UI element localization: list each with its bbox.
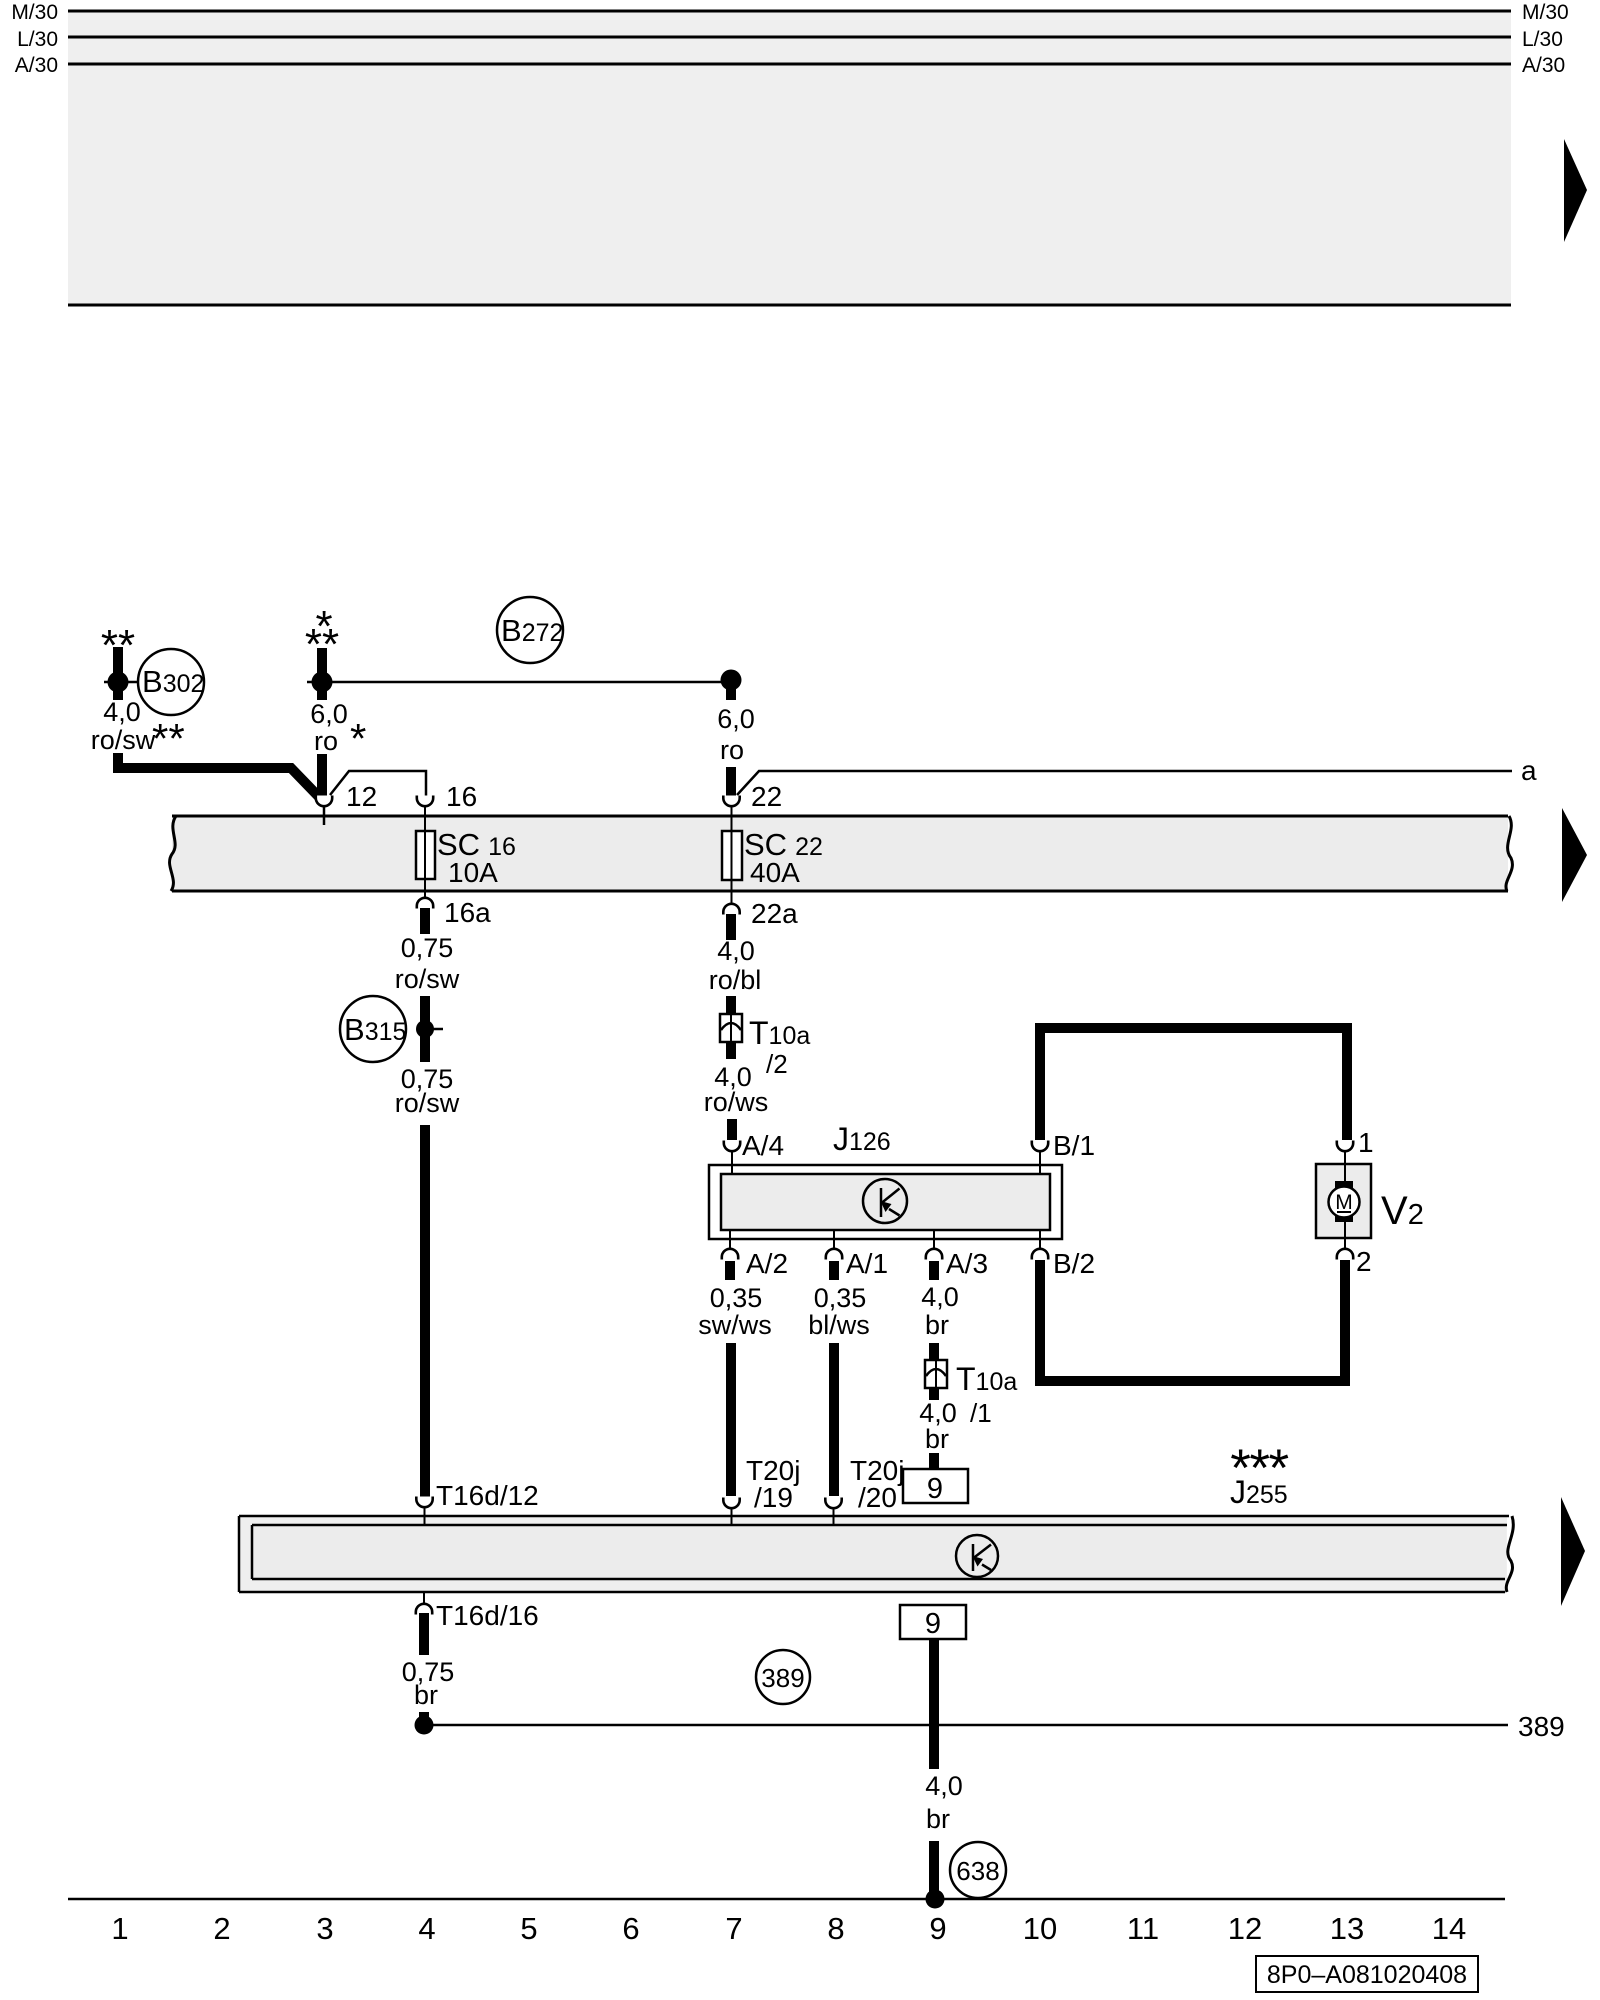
wire into terminal 12 xyxy=(317,754,327,797)
svg-text:L/30: L/30 xyxy=(17,28,58,51)
svg-text:22: 22 xyxy=(751,781,782,812)
svg-text:8P0–A081020408: 8P0–A081020408 xyxy=(1267,1961,1467,1989)
wire A/3 into connector T10a/1 xyxy=(929,1343,939,1362)
wire bridge terminal 12 to 16 xyxy=(330,771,426,797)
svg-text:M/30: M/30 xyxy=(1522,1,1569,24)
svg-text:2: 2 xyxy=(213,1911,230,1946)
terminal T16d/12 cup xyxy=(416,1497,432,1508)
svg-text:2: 2 xyxy=(1356,1246,1372,1277)
node ground dot xyxy=(926,1890,945,1909)
terminal B/2 cup xyxy=(1039,1230,1041,1250)
wire M/30 rail xyxy=(68,10,1511,13)
terminal 22a cup xyxy=(723,904,739,915)
svg-text:*: * xyxy=(350,715,366,762)
svg-text:ro/sw: ro/sw xyxy=(91,725,156,755)
svg-text:B/1: B/1 xyxy=(1053,1130,1095,1161)
svg-text:B302: B302 xyxy=(142,664,204,699)
wire stub below 16a xyxy=(420,908,430,934)
panel bottom edge xyxy=(68,304,1511,307)
continuation arrow top right xyxy=(1564,139,1587,242)
svg-text:ro: ro xyxy=(720,735,744,765)
node junction dot B315 xyxy=(416,1020,434,1038)
ground junction box 9 lower xyxy=(900,1605,966,1640)
svg-text:12: 12 xyxy=(1228,1911,1262,1946)
wire L/30 rail xyxy=(68,36,1511,39)
wire below connector xyxy=(726,1042,736,1059)
svg-text:A/30: A/30 xyxy=(1522,54,1565,77)
connection point 638 xyxy=(950,1842,1006,1898)
wire ground box to earth top xyxy=(929,1639,939,1769)
svg-text:9: 9 xyxy=(929,1911,946,1946)
wire loop V2 pin 2 to B/2 xyxy=(1040,1260,1345,1381)
svg-text:br: br xyxy=(414,1680,438,1710)
terminal B/1 cup xyxy=(1032,1141,1048,1152)
fuse SC16 body xyxy=(416,831,435,879)
svg-text:16a: 16a xyxy=(444,897,491,928)
wire A/2 stub xyxy=(725,1261,735,1280)
svg-text:/19: /19 xyxy=(754,1482,793,1513)
wire 389 line xyxy=(424,1724,1508,1727)
wire long run to T16d/12 xyxy=(420,1125,430,1497)
svg-text:ro/bl: ro/bl xyxy=(709,965,762,995)
svg-text:B272: B272 xyxy=(501,613,563,648)
drawing number box xyxy=(1256,1956,1478,1992)
connection point B315 xyxy=(340,996,406,1062)
wire tick at B315 junction xyxy=(425,1028,443,1031)
svg-text:A/1: A/1 xyxy=(846,1248,888,1279)
svg-text:389: 389 xyxy=(1518,1711,1565,1742)
wire stub below 22a xyxy=(726,914,736,940)
node junction dot 389 xyxy=(415,1716,434,1735)
terminal T16d/16 cup xyxy=(423,1592,425,1605)
connection point B302 xyxy=(138,649,204,715)
wire into terminal 22 xyxy=(726,767,736,797)
svg-text:B315: B315 xyxy=(344,1012,406,1047)
svg-text:/20: /20 xyxy=(858,1482,897,1513)
svg-text:0,75: 0,75 xyxy=(401,933,454,963)
wire A/3 stub xyxy=(929,1261,939,1280)
wire into 389 node xyxy=(419,1712,429,1725)
control module J126 box xyxy=(709,1165,1062,1239)
terminal 16a cup xyxy=(417,898,433,909)
terminal A/1 cup xyxy=(833,1230,835,1250)
svg-text:B/2: B/2 xyxy=(1053,1248,1095,1279)
svg-text:br: br xyxy=(925,1424,949,1454)
bus rail panel top xyxy=(68,11,1511,305)
svg-text:6,0: 6,0 xyxy=(717,704,755,734)
fuse panel band SC xyxy=(170,816,1513,891)
svg-text:a: a xyxy=(1521,755,1537,786)
terminal A/2 cup xyxy=(729,1230,731,1250)
continuation arrow J255 right xyxy=(1561,1497,1585,1606)
control module J255 band xyxy=(239,1516,1513,1592)
svg-text:8: 8 xyxy=(827,1911,844,1946)
svg-text:4,0: 4,0 xyxy=(925,1771,963,1801)
svg-text:9: 9 xyxy=(925,1608,941,1640)
svg-text:A/3: A/3 xyxy=(946,1248,988,1279)
svg-text:br: br xyxy=(925,1310,949,1340)
svg-text:br: br xyxy=(926,1804,950,1834)
svg-text:40A: 40A xyxy=(750,857,800,888)
fuse SC22 line through xyxy=(731,805,733,904)
svg-text:9: 9 xyxy=(927,1473,943,1505)
control module symbol K in J255 xyxy=(956,1535,998,1577)
wire loop B/1 to V2 pin 1 xyxy=(1040,1028,1347,1140)
continuation arrow fuse band right xyxy=(1562,808,1587,902)
fuse SC16 line through xyxy=(424,805,426,898)
wire into terminal A/4 xyxy=(727,1119,737,1140)
svg-text:ro/ws: ro/ws xyxy=(704,1087,769,1117)
svg-text:A/2: A/2 xyxy=(746,1248,788,1279)
terminal A/4 cup xyxy=(724,1141,740,1152)
svg-text:5: 5 xyxy=(520,1911,537,1946)
wire a branch line xyxy=(737,771,1512,795)
svg-text:sw/ws: sw/ws xyxy=(698,1310,772,1340)
svg-text:1: 1 xyxy=(111,1911,128,1946)
wire stub fused feed xyxy=(317,648,327,700)
wire segment through B315 xyxy=(420,996,430,1062)
terminal 16 cup xyxy=(417,796,433,807)
svg-text:ro: ro xyxy=(314,726,338,756)
svg-text:**: ** xyxy=(152,715,185,762)
wire into connector T10a/2 xyxy=(726,996,736,1016)
wire A/1 to T20j/20 xyxy=(829,1343,839,1496)
svg-text:14: 14 xyxy=(1432,1911,1466,1946)
svg-text:11: 11 xyxy=(1127,1911,1159,1946)
svg-text:T16d/16: T16d/16 xyxy=(436,1600,539,1631)
svg-text:A/4: A/4 xyxy=(742,1130,784,1161)
svg-text:638: 638 xyxy=(956,1856,999,1886)
svg-text:6,0: 6,0 xyxy=(310,699,348,729)
svg-text:22a: 22a xyxy=(751,898,798,929)
connection point B272 xyxy=(497,597,563,663)
terminal V2 pin 2 cup xyxy=(1337,1249,1353,1260)
svg-text:M/30: M/30 xyxy=(11,1,58,24)
connector T10a pin 2 xyxy=(720,1014,742,1042)
control module symbol K in J126 xyxy=(863,1179,907,1223)
svg-text:/1: /1 xyxy=(970,1398,992,1428)
svg-text:13: 13 xyxy=(1330,1911,1364,1946)
svg-text:bl/ws: bl/ws xyxy=(808,1310,870,1340)
svg-text:4,0: 4,0 xyxy=(921,1282,959,1312)
svg-text:6: 6 xyxy=(622,1911,639,1946)
svg-text:10: 10 xyxy=(1023,1911,1057,1946)
terminal 12 cup xyxy=(316,796,332,807)
svg-text:4: 4 xyxy=(418,1911,435,1946)
wire ground rail xyxy=(68,1898,1505,1901)
node junction dot fused feed xyxy=(312,672,333,693)
terminal A/3 cup xyxy=(933,1230,935,1250)
ground junction box 9 upper xyxy=(903,1469,968,1505)
wire stub below T16d/16 xyxy=(419,1613,429,1655)
wire into ground box 9 xyxy=(929,1453,939,1469)
svg-text:0,35: 0,35 xyxy=(814,1283,867,1313)
svg-text:16: 16 xyxy=(446,781,477,812)
terminal T20j/19 cup xyxy=(723,1498,739,1509)
svg-text:1: 1 xyxy=(1358,1127,1374,1158)
svg-text:7: 7 xyxy=(725,1911,742,1946)
terminal 12 line into band xyxy=(323,805,326,825)
terminal T20j/20 cup xyxy=(825,1498,841,1509)
svg-text:10A: 10A xyxy=(448,857,498,888)
wire below connector T10a/1 xyxy=(929,1388,939,1400)
terminal 22 cup xyxy=(723,796,739,807)
svg-text:4,0: 4,0 xyxy=(103,697,141,727)
svg-text:389: 389 xyxy=(761,1663,804,1693)
svg-text:A/30: A/30 xyxy=(15,54,58,77)
wire stub B302 xyxy=(113,647,123,700)
motor V2 box xyxy=(1316,1151,1371,1250)
wire ground to earth bottom xyxy=(929,1841,939,1899)
terminal V2 pin 1 cup xyxy=(1337,1141,1353,1152)
svg-text:/2: /2 xyxy=(766,1049,788,1079)
node junction dot 6,0 ro xyxy=(721,670,742,691)
svg-text:ro/sw: ro/sw xyxy=(395,1088,460,1118)
wire thick L from B302 to terminal 12 xyxy=(118,753,320,798)
svg-text:ro/sw: ro/sw xyxy=(395,964,460,994)
connection point 389 xyxy=(756,1650,810,1704)
svg-text:T16d/12: T16d/12 xyxy=(436,1480,539,1511)
svg-text:12: 12 xyxy=(346,781,377,812)
wire tick at B302 junction xyxy=(104,681,137,684)
node junction dot B302 xyxy=(108,672,129,693)
wire A/2 to T20j/19 xyxy=(726,1343,736,1496)
fuse SC22 body xyxy=(722,831,742,880)
wire link line to 6,0 ro drop xyxy=(307,681,731,684)
svg-text:L/30: L/30 xyxy=(1522,28,1563,51)
wire stub below junction xyxy=(726,682,736,700)
svg-text:0,35: 0,35 xyxy=(710,1283,763,1313)
connector T10a pin 1 xyxy=(925,1360,947,1388)
wire A/1 stub xyxy=(829,1261,839,1280)
svg-text:4,0: 4,0 xyxy=(717,936,755,966)
wire A/30 rail xyxy=(68,63,1511,66)
svg-text:3: 3 xyxy=(316,1911,333,1946)
svg-text:M: M xyxy=(1335,1191,1353,1214)
